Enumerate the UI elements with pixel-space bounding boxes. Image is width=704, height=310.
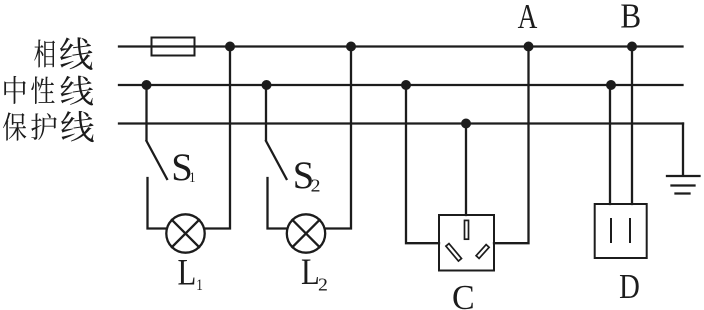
lamp L1 cross stroke 2	[172, 220, 199, 247]
wire socket C live lead from node A	[494, 47, 529, 244]
svg-text:1: 1	[196, 277, 203, 294]
ground symbol bar 1	[667, 175, 700, 177]
junction neutral/S2	[262, 80, 272, 90]
junction neutral/D	[606, 80, 616, 90]
wire ground lead from protective wire	[682, 124, 684, 176]
junction live/node A	[524, 42, 534, 52]
switch S2 blade (open)	[266, 141, 287, 179]
appliance D left slot	[610, 219, 612, 242]
wire S2 bottom lead to lamp L2	[268, 178, 288, 229]
socket C outline	[439, 215, 494, 271]
svg-text:2: 2	[311, 176, 321, 196]
junction live/node B	[627, 42, 637, 52]
wire live (相线) horizontal bus	[119, 45, 683, 47]
socket C earth slot	[465, 220, 469, 239]
ground symbol bar 2	[672, 184, 695, 186]
label char 性 (neutral wire label)	[31, 76, 54, 104]
wire socket C neutral lead	[406, 85, 439, 243]
wire neutral (中性线) horizontal bus	[119, 84, 683, 86]
wire protective (保护线) horizontal bus	[119, 122, 683, 124]
lamp L1 circle	[166, 214, 204, 252]
appliance D right slot	[629, 219, 631, 242]
socket C right slot	[476, 245, 489, 259]
wire socket C earth lead from protective wire	[465, 124, 467, 216]
svg-text:C: C	[452, 279, 475, 310]
junction live/L2	[346, 42, 356, 52]
svg-text:B: B	[620, 0, 641, 36]
junction neutral/C	[401, 80, 411, 90]
switch S1 blade (open)	[147, 141, 168, 179]
wire lamp L1 right lead to live wire	[205, 47, 231, 229]
label char 护 (protective wire label)	[31, 113, 56, 140]
lamp L2 cross stroke 2	[292, 220, 319, 247]
wire S1 top lead from neutral	[145, 85, 147, 140]
svg-text:2: 2	[318, 275, 328, 295]
label char 线 (live wire label)	[60, 37, 93, 70]
label char 相 (live wire label)	[34, 40, 55, 68]
wire appliance D neutral lead	[609, 85, 611, 204]
wire lamp L2 right lead to live wire	[325, 47, 351, 229]
label char 线 (protective wire label)	[61, 111, 94, 142]
svg-text:1: 1	[189, 170, 195, 186]
wire S1 bottom lead to lamp L1	[148, 178, 167, 229]
label char 中 (neutral wire label)	[4, 76, 26, 104]
junction neutral/S1	[142, 80, 152, 90]
wire appliance D live lead from node B	[631, 47, 633, 205]
appliance D outline	[595, 204, 647, 258]
socket C left slot	[446, 244, 462, 262]
label char 保 (protective wire label)	[3, 112, 26, 140]
wire S2 top lead from neutral	[265, 85, 267, 140]
svg-text:D: D	[619, 266, 640, 305]
fuse on live wire	[152, 38, 195, 56]
ground symbol bar 3	[676, 192, 690, 194]
svg-text:A: A	[518, 0, 538, 36]
svg-text:L: L	[301, 252, 320, 292]
lamp L2 cross stroke 1	[292, 220, 319, 247]
lamp L2 circle	[287, 214, 325, 252]
junction protective/C	[461, 119, 471, 129]
junction live/L1	[225, 42, 235, 52]
svg-text:L: L	[178, 253, 197, 293]
label char 线 (neutral wire label)	[61, 76, 94, 106]
lamp L1 cross stroke 1	[172, 220, 199, 247]
